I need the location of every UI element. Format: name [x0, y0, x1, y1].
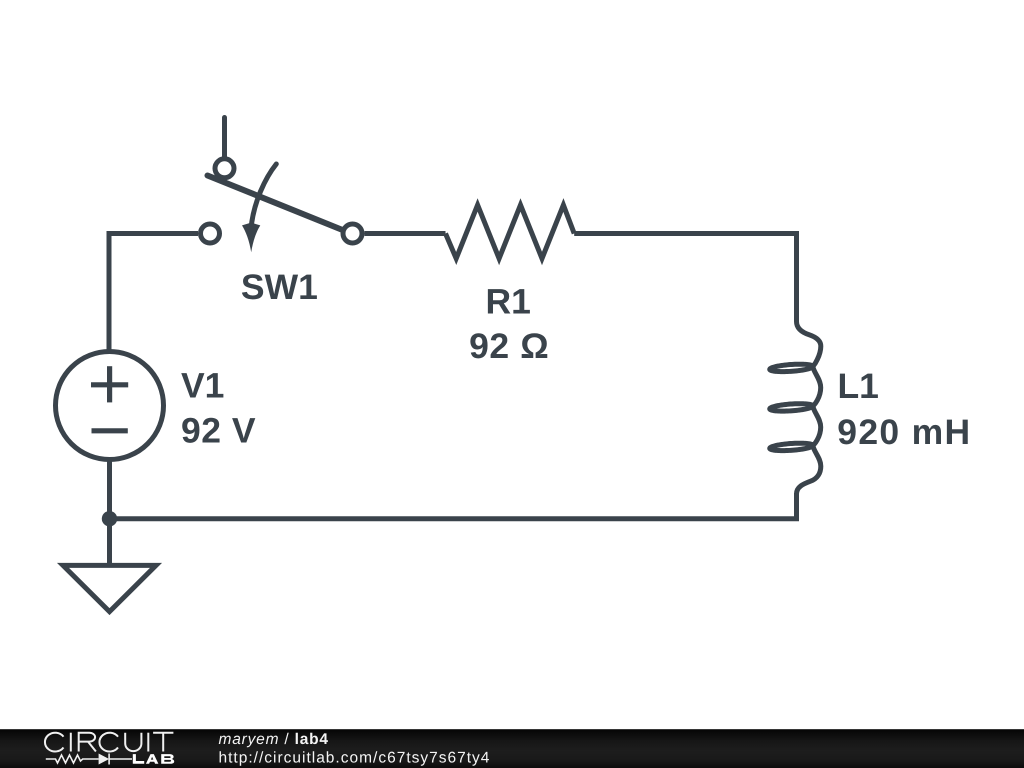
- svg-text:L1: L1: [838, 366, 879, 406]
- svg-text:SW1: SW1: [241, 267, 318, 307]
- svg-text:http://circuitlab.com/c67tsy7s: http://circuitlab.com/c67tsy7s67ty4: [219, 750, 491, 767]
- svg-text:maryem / lab4: maryem / lab4: [219, 731, 329, 748]
- svg-text:920 mH: 920 mH: [837, 412, 971, 452]
- svg-text:92 V: 92 V: [181, 411, 256, 451]
- svg-text:92 Ω: 92 Ω: [469, 326, 549, 366]
- svg-text:V1: V1: [181, 366, 224, 406]
- svg-text:R1: R1: [486, 282, 531, 322]
